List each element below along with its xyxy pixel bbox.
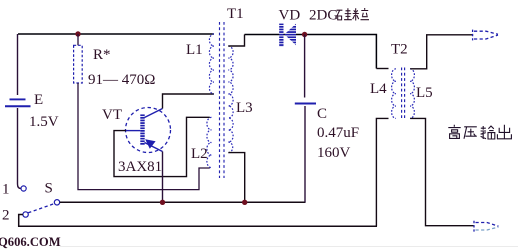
svg-text:160V: 160V	[317, 145, 351, 161]
junction dot emitter-rail	[160, 200, 165, 205]
winding L4	[392, 69, 396, 119]
wire top rail right segment	[245, 35, 377, 69]
svg-text:S: S	[45, 181, 53, 197]
wire R bottom to L2 bottom	[78, 83, 210, 190]
winding L3	[228, 46, 233, 153]
wire L3 bottom riser	[228, 153, 244, 203]
svg-text:L3: L3	[236, 100, 253, 116]
transistor VT circle	[126, 108, 171, 153]
output terminal bottom	[474, 221, 499, 232]
svg-text:L5: L5	[416, 85, 433, 101]
wire L4 bottom bracket riser	[376, 118, 388, 226]
svg-text:0.47uF: 0.47uF	[317, 125, 359, 141]
wire top rail left segment	[18, 33, 214, 35]
wire R top lead	[77, 34, 79, 46]
wire base to L2 top	[114, 117, 210, 176]
label gui li	[337, 8, 369, 21]
svg-text:2DG: 2DG	[309, 8, 338, 24]
faint bottom scan line	[60, 246, 518, 248]
resistor R*	[74, 45, 83, 83]
wire collector riser	[163, 94, 215, 109]
transistor collector line	[145, 109, 163, 118]
svg-text:Q606.COM: Q606.COM	[0, 235, 61, 249]
svg-text:2: 2	[2, 208, 10, 224]
terminal contact 2	[23, 212, 28, 217]
wire C top lead	[304, 35, 306, 98]
wire emitter riser	[162, 152, 164, 203]
transistor base lead	[126, 130, 140, 132]
wire left vertical battery branch	[17, 34, 19, 95]
label high voltage output	[448, 125, 511, 139]
svg-text:T1: T1	[227, 6, 244, 22]
svg-text:VD: VD	[279, 8, 301, 24]
wire terminal 2 to lower rail	[19, 215, 377, 227]
transistor base bar	[140, 114, 144, 145]
svg-text:T2: T2	[391, 42, 408, 58]
transformer T2 core	[402, 68, 405, 121]
svg-text:3AX81: 3AX81	[118, 159, 162, 175]
wire C bottom lead	[304, 106, 306, 202]
transformer T1 core	[220, 22, 225, 178]
wire L5 top to output	[410, 35, 472, 69]
switch S pole	[54, 200, 59, 205]
wire L4 top bracket	[376, 68, 388, 70]
svg-text:R*: R*	[93, 47, 111, 63]
svg-text:C: C	[317, 106, 327, 122]
switch blade dashed	[28, 204, 54, 213]
capacitor C plate	[295, 102, 316, 104]
svg-text:1: 1	[2, 182, 10, 198]
winding L1	[209, 34, 214, 94]
junction dot R top	[75, 31, 80, 36]
svg-text:E: E	[34, 92, 43, 108]
wire L5 bottom to output	[410, 118, 473, 225]
svg-text:91— 470Ω: 91— 470Ω	[88, 72, 155, 88]
wire L3 top stub	[228, 35, 244, 47]
svg-text:L4: L4	[370, 81, 387, 97]
transistor emitter line	[145, 143, 163, 152]
svg-text:1.5V: 1.5V	[29, 114, 59, 130]
svg-text:L1: L1	[186, 42, 203, 58]
svg-text:VT: VT	[102, 107, 122, 123]
transistor emitter arrow	[145, 139, 155, 149]
junction dot L3-rail	[242, 200, 247, 205]
wire main ground rail	[60, 201, 306, 203]
winding L5	[410, 69, 414, 119]
terminal contact 1	[21, 186, 26, 191]
svg-text:L2: L2	[191, 146, 208, 162]
diode VD triangle	[284, 24, 296, 46]
wire battery to terminal 1	[18, 108, 21, 189]
battery E	[5, 99, 31, 106]
diode VD cathode bar	[279, 24, 283, 47]
winding L2	[207, 117, 212, 167]
junction dot C top	[302, 32, 307, 37]
output terminal top	[473, 30, 498, 41]
